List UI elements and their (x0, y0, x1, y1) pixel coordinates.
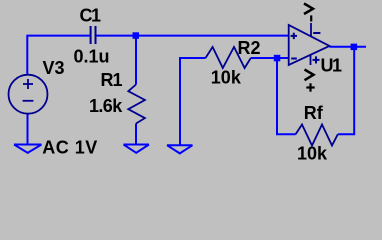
resistor Rf (296, 125, 338, 146)
wire: top net from V3 to C1 left plate (27, 36, 90, 75)
op-amp U1 V- pin label (rotated V) (304, 4, 313, 15)
op-amp U1 inverting input marker (291, 58, 297, 60)
wire: feedback right side from Rf to output node (338, 47, 354, 135)
op-amp U1 V+ pin label (plus) (306, 83, 314, 91)
svg-text:V3: V3 (43, 58, 65, 78)
capacitor C1 plates (91, 26, 96, 44)
op-amp U1 noninverting input marker (291, 33, 297, 39)
svg-text:R1: R1 (101, 70, 123, 90)
resistor R2 (206, 47, 251, 68)
resistor R1 (128, 85, 145, 124)
wire: V3 bottom to ground (27, 114, 29, 145)
wire: R2 right lead to inverting input (251, 57, 289, 59)
wire: junction down to R1 top (135, 36, 137, 85)
op-amp U1 V+ polarity marker (313, 56, 320, 63)
wire: C1 right plate to op-amp noninverting input (96, 35, 288, 37)
svg-text:C1: C1 (80, 6, 101, 26)
op-amp U1 V+ pin label (rotated V) (305, 70, 314, 81)
node: junction at inverting input / feedback (274, 55, 281, 62)
svg-text:AC 1V: AC 1V (42, 137, 98, 157)
svg-text:Rf: Rf (304, 103, 324, 123)
node: junction at output (351, 44, 358, 51)
svg-text:0.1u: 0.1u (74, 47, 110, 67)
op-amp U1 V- pin label (rotated minus) (310, 15, 312, 21)
svg-text:10k: 10k (211, 67, 242, 87)
svg-text:U1: U1 (321, 56, 342, 76)
ground (R2 left) (167, 145, 193, 153)
op-amp U1 V- supply pin (310, 23, 312, 36)
ground (V3) (14, 145, 42, 153)
voltage source V3 (9, 75, 48, 114)
svg-text:1.6k: 1.6k (89, 96, 123, 116)
svg-text:R2: R2 (238, 38, 261, 58)
op-amp U1 V- polarity marker (313, 32, 320, 34)
node: junction at C1 output / R1 top (133, 32, 140, 39)
wire: feedback left vertical (277, 58, 296, 134)
wire: R1 bottom to ground (135, 124, 137, 145)
op-amp U1 V+ supply pin (310, 55, 312, 65)
wire: op-amp output (330, 46, 367, 48)
svg-text:10k: 10k (297, 143, 328, 163)
wire: R2 left lead and drop to ground (180, 58, 206, 145)
op-amp U1 triangle (289, 25, 330, 65)
ground (R1) (124, 145, 150, 153)
